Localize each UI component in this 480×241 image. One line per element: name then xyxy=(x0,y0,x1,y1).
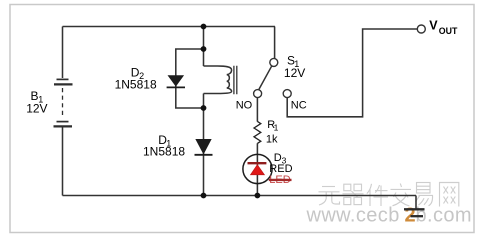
wire battery bottom xyxy=(62,128,64,196)
char jiao xyxy=(391,184,412,207)
watermark chinese characters xyxy=(319,183,459,207)
switch NC contact xyxy=(283,90,291,98)
switch lever xyxy=(259,66,272,90)
ground xyxy=(404,209,425,216)
switch NO contact xyxy=(254,90,262,98)
relay core bars xyxy=(234,66,237,95)
wire bottom rail xyxy=(63,195,417,197)
svg-text:V: V xyxy=(429,19,438,33)
svg-text:1N5818: 1N5818 xyxy=(115,77,157,91)
svg-text:OUT: OUT xyxy=(439,26,458,36)
svg-text:NO: NO xyxy=(236,99,253,111)
wire top rail xyxy=(63,26,276,28)
svg-text:www.cecb: www.cecb xyxy=(306,205,400,227)
node junction LED bottom rail xyxy=(255,193,261,199)
node junction D2 bottom xyxy=(201,105,207,111)
switch S1 pole xyxy=(270,58,278,66)
char yi xyxy=(416,183,433,206)
watermark url www.cecb2b.com xyxy=(306,205,472,227)
wire switch drop xyxy=(274,27,276,59)
LED D3 xyxy=(243,154,272,183)
svg-text:1: 1 xyxy=(274,123,279,133)
char qi xyxy=(343,184,364,204)
wire ground drop xyxy=(415,196,417,209)
diode D2 xyxy=(167,76,185,88)
wire R1 to LED xyxy=(256,143,258,195)
svg-text:12V: 12V xyxy=(26,101,47,115)
wire NC to Vout riser xyxy=(287,29,417,117)
wire NO drop xyxy=(256,98,258,122)
node junction D2 top xyxy=(201,46,207,52)
char jian xyxy=(367,184,388,206)
wire relay branch top xyxy=(203,27,205,67)
wire battery top xyxy=(62,27,64,79)
svg-text:b.com: b.com xyxy=(416,205,472,227)
svg-text:NC: NC xyxy=(291,100,307,112)
svg-text:1k: 1k xyxy=(266,134,278,146)
resistor R1 xyxy=(254,121,261,143)
diode D1 xyxy=(195,139,213,154)
relay coil L1 xyxy=(204,66,232,94)
terminal Vout xyxy=(417,25,425,33)
node junction D1 bottom rail xyxy=(201,193,207,199)
svg-text:1N5818: 1N5818 xyxy=(143,145,185,159)
battery B1 xyxy=(54,79,73,126)
node junction top rail xyxy=(201,24,207,30)
char yuan xyxy=(319,187,340,206)
wire relay to bottom rail xyxy=(203,94,205,196)
char wang xyxy=(440,183,459,207)
wire D2 branch xyxy=(176,49,204,108)
svg-text:12V: 12V xyxy=(284,66,305,80)
